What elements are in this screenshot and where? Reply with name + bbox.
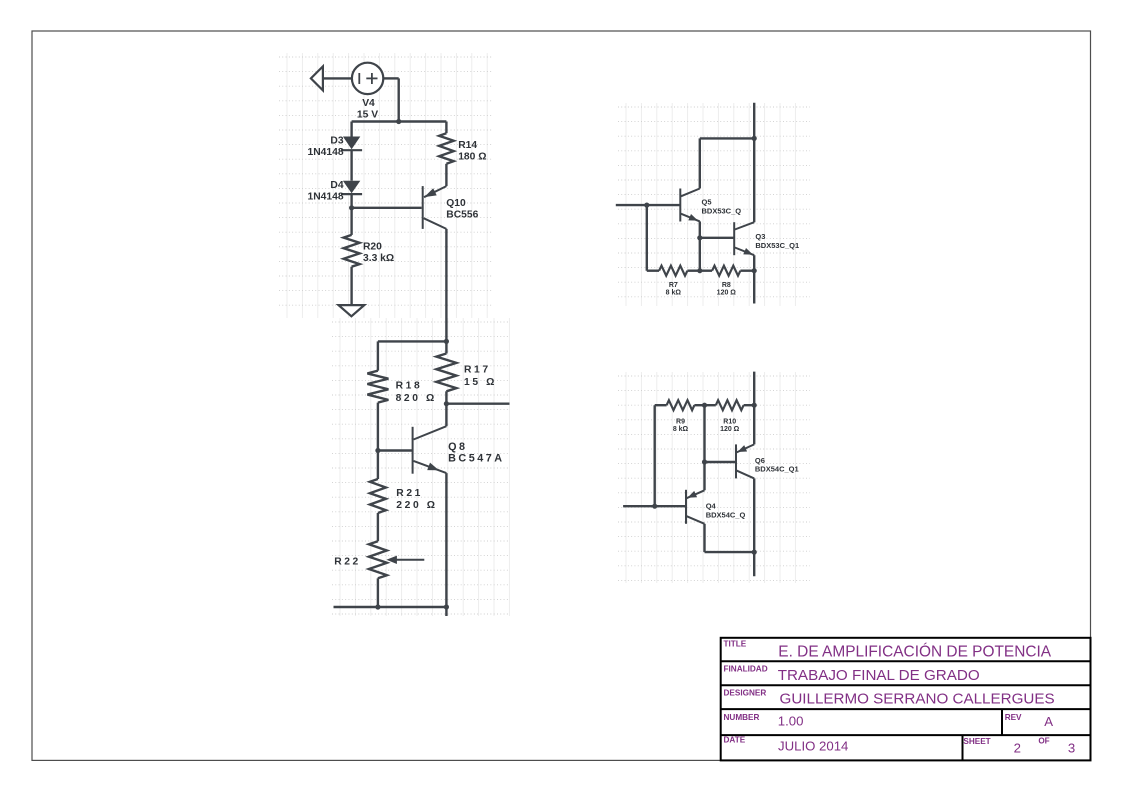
svg-text:BDX53C_Q: BDX53C_Q xyxy=(702,207,742,216)
svg-text:OF: OF xyxy=(1038,737,1049,746)
svg-text:2: 2 xyxy=(1014,741,1021,756)
svg-text:BC556: BC556 xyxy=(446,210,478,221)
svg-text:R14: R14 xyxy=(458,140,477,151)
svg-text:R9: R9 xyxy=(676,418,685,425)
svg-text:DESIGNER: DESIGNER xyxy=(724,689,767,698)
svg-text:15 Ω: 15 Ω xyxy=(464,377,497,388)
svg-text:TRABAJO FINAL DE GRADO: TRABAJO FINAL DE GRADO xyxy=(778,667,980,684)
svg-text:R21: R21 xyxy=(396,488,423,499)
svg-text:REV: REV xyxy=(1005,713,1022,722)
svg-text:R22: R22 xyxy=(334,557,361,568)
svg-text:Q6: Q6 xyxy=(755,456,765,465)
svg-text:GUILLERMO SERRANO CALLERGUES: GUILLERMO SERRANO CALLERGUES xyxy=(780,691,1055,708)
svg-text:820 Ω: 820 Ω xyxy=(396,393,437,404)
svg-text:FINALIDAD: FINALIDAD xyxy=(724,665,768,674)
svg-text:V4: V4 xyxy=(362,98,375,109)
svg-text:R20: R20 xyxy=(363,242,382,253)
svg-text:E. DE AMPLIFICACIÓN DE POTENCI: E. DE AMPLIFICACIÓN DE POTENCIA xyxy=(778,644,1051,661)
svg-text:220 Ω: 220 Ω xyxy=(396,500,437,511)
svg-text:A: A xyxy=(1044,714,1053,729)
svg-text:BDX54C_Q1: BDX54C_Q1 xyxy=(755,465,799,474)
svg-text:180 Ω: 180 Ω xyxy=(458,152,486,163)
svg-text:Q8: Q8 xyxy=(448,441,467,453)
svg-text:R18: R18 xyxy=(396,380,423,391)
svg-text:R17: R17 xyxy=(464,364,491,375)
svg-text:TITLE: TITLE xyxy=(724,640,747,649)
svg-text:1N4148: 1N4148 xyxy=(308,192,344,203)
svg-text:JULIO 2014: JULIO 2014 xyxy=(778,739,848,754)
svg-text:Q3: Q3 xyxy=(755,232,765,241)
svg-text:BDX54C_Q: BDX54C_Q xyxy=(706,511,746,520)
svg-text:120 Ω: 120 Ω xyxy=(720,426,740,433)
svg-text:R10: R10 xyxy=(723,418,736,425)
svg-text:DATE: DATE xyxy=(724,736,746,745)
svg-text:120 Ω: 120 Ω xyxy=(717,290,737,297)
svg-text:BC547A: BC547A xyxy=(448,453,504,465)
svg-text:15 V: 15 V xyxy=(357,110,378,121)
svg-text:Q4: Q4 xyxy=(706,502,717,511)
svg-text:3.3 kΩ: 3.3 kΩ xyxy=(363,253,394,264)
svg-text:1N4148: 1N4148 xyxy=(308,147,344,158)
svg-text:D4: D4 xyxy=(330,180,343,191)
svg-text:R8: R8 xyxy=(722,282,731,289)
svg-text:R7: R7 xyxy=(669,282,678,289)
svg-text:8 kΩ: 8 kΩ xyxy=(666,290,682,297)
svg-text:Q10: Q10 xyxy=(446,198,466,209)
svg-text:3: 3 xyxy=(1068,741,1075,756)
svg-text:NUMBER: NUMBER xyxy=(724,713,760,722)
svg-text:D3: D3 xyxy=(330,135,343,146)
svg-text:SHEET: SHEET xyxy=(963,737,990,746)
svg-text:BDX53C_Q1: BDX53C_Q1 xyxy=(755,241,799,250)
svg-text:8 kΩ: 8 kΩ xyxy=(673,426,689,433)
svg-text:1.00: 1.00 xyxy=(778,714,804,729)
svg-text:Q5: Q5 xyxy=(702,198,712,207)
